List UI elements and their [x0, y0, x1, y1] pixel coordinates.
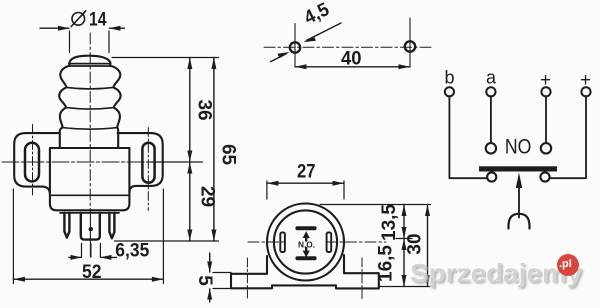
dimension 5 upper arrow	[207, 253, 212, 273]
dimension 65 line	[211, 58, 216, 242]
dimension 27 line	[267, 181, 344, 186]
dimension 6,35 left arrow	[69, 255, 82, 260]
svg-text:30: 30	[405, 233, 426, 254]
wire +4 down and left	[549, 96, 586, 178]
actuator plunger hook	[508, 214, 529, 229]
moving contact bar	[479, 166, 557, 171]
right slot vertical centerline	[147, 128, 149, 211]
foot / base plate outline	[231, 255, 379, 288]
svg-text:5: 5	[194, 275, 215, 286]
terminal +3 circle	[541, 87, 550, 96]
dimension 40 text	[341, 49, 362, 70]
inner circle	[274, 210, 337, 273]
dimension 52 text	[82, 262, 102, 283]
extension line at mounting plane	[150, 161, 203, 163]
right hole vertical centerline + extension	[409, 18, 411, 67]
dimension 27 text	[297, 162, 316, 183]
outer circle	[267, 204, 344, 281]
leader 4,5 upper line with arrow	[303, 23, 341, 42]
dimension 13,5 line	[402, 205, 407, 239]
top key slot	[296, 226, 317, 230]
terminal a circle	[486, 87, 495, 96]
leader 4,5 lower line with arrow	[271, 52, 290, 62]
fixed contact +3 circle	[541, 143, 551, 153]
actuator arrowhead	[516, 173, 522, 189]
extension tick between 13,5 and 16,5	[396, 238, 412, 240]
svg-text:27: 27	[297, 162, 316, 183]
left mounting hole	[290, 42, 300, 52]
boot cap sides	[69, 62, 110, 66]
svg-text:NO: NO	[505, 136, 532, 159]
extension line right of Ø14	[108, 31, 110, 53]
left slot vertical centerline	[32, 125, 34, 196]
body drum outline	[50, 148, 129, 210]
svg-text:65: 65	[217, 144, 238, 166]
NO label	[505, 136, 532, 159]
drum seam line	[50, 194, 129, 196]
center pin	[81, 213, 100, 240]
wire +3 down	[545, 96, 547, 143]
left key slot	[280, 233, 285, 253]
terminal +3 label	[540, 70, 551, 91]
dimension 52 line	[13, 277, 163, 282]
watermark .pl text	[559, 258, 579, 270]
boot bellows left profile	[59, 66, 68, 148]
dimension 29 line	[187, 162, 192, 241]
bracket horizontal centerline	[2, 161, 165, 163]
svg-text:6,35: 6,35	[115, 241, 149, 262]
moving contact left circle	[487, 172, 496, 181]
dimension 29 text	[197, 186, 218, 207]
extension lines for 27	[267, 181, 344, 199]
leader 4,5 text	[301, 0, 333, 29]
boot bellows right profile	[111, 66, 120, 148]
dimension 16,5 text	[376, 245, 397, 282]
dimension 6,35 right arrow	[100, 255, 116, 260]
rubber boot cap dome	[69, 56, 110, 63]
dimension Ø14 line right with arrow	[109, 26, 125, 31]
extension lines for 52	[13, 189, 163, 284]
bottom key slot	[296, 256, 317, 260]
svg-text:14: 14	[89, 10, 107, 31]
N.O. text	[298, 240, 315, 250]
svg-text:52: 52	[82, 262, 102, 283]
terminal b circle	[445, 87, 454, 96]
svg-text:a: a	[486, 68, 497, 88]
svg-text:40: 40	[341, 49, 362, 70]
svg-text:b: b	[445, 68, 455, 88]
dimension 36 text	[193, 99, 214, 120]
right ear slot	[142, 143, 154, 183]
dimension 40 line	[295, 64, 410, 69]
dimension 6,35 text	[115, 241, 149, 262]
watermark Sprzedajemy	[410, 258, 600, 289]
down arrow below N.O.	[303, 251, 310, 258]
terminal +4 label	[580, 70, 591, 91]
svg-text:36: 36	[193, 99, 214, 120]
watermark .pl red badge	[557, 254, 579, 276]
fixed contact a circle	[486, 143, 496, 153]
drum lower rim line	[60, 212, 119, 214]
extension line top right (13,5 / 30)	[320, 204, 431, 206]
extension lines for 6,35	[82, 244, 101, 258]
main vertical centerline of side view	[89, 33, 91, 210]
extension line at boot top	[112, 57, 219, 59]
dimension 65 text	[217, 144, 238, 166]
right foot hole centerline	[361, 258, 363, 299]
center pin rivet dot	[89, 227, 93, 231]
left ear slot	[25, 143, 39, 182]
holes horizontal centerline	[264, 46, 432, 48]
wire a down	[490, 96, 492, 143]
moving contact right circle	[540, 172, 549, 181]
up arrow above N.O.	[303, 231, 310, 238]
terminal b label	[445, 68, 455, 88]
extension lines for 5	[213, 273, 231, 289]
svg-text:16,5: 16,5	[376, 245, 397, 282]
front view horizontal centerline	[248, 241, 386, 243]
extension line at pin bottom	[115, 240, 219, 242]
terminal +4 circle	[581, 87, 590, 96]
dimension 30 text	[405, 233, 426, 254]
left hole vertical centerline + extension	[294, 24, 296, 67]
actuator arrow shaft	[518, 186, 520, 218]
boot fold line 1	[66, 87, 113, 89]
right key slot	[327, 233, 332, 253]
dimension 16,5 line	[402, 239, 407, 287]
right pin	[109, 213, 114, 238]
dimension Ø14 line left with arrow	[40, 26, 70, 31]
bracket right ear	[118, 133, 163, 191]
dimension 13,5 text	[379, 204, 400, 241]
dimension 5 lower arrow	[207, 289, 212, 303]
svg-text:13,5: 13,5	[379, 204, 400, 241]
dimension 30 line	[425, 205, 430, 287]
bracket left ear	[14, 133, 59, 193]
extension line left of Ø14	[69, 31, 71, 53]
dimension Ø14 text	[71, 11, 86, 27]
boot skirt bottom line	[63, 128, 118, 130]
left foot hole centerline	[246, 258, 248, 298]
extension line bottom right	[379, 286, 431, 288]
svg-text:4,5: 4,5	[301, 0, 333, 29]
boot cap rim lines	[69, 64, 112, 66]
left pin	[64, 213, 69, 238]
terminal a label	[486, 68, 497, 88]
dimension 36 line	[187, 58, 192, 163]
wire b down and right	[449, 96, 487, 178]
dimension 5 text	[194, 275, 215, 286]
right mounting hole	[405, 41, 415, 51]
boot fold line 2	[66, 108, 114, 109]
